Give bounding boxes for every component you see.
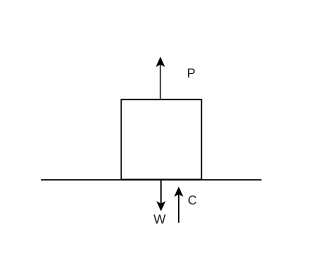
force arrow C head (175, 187, 183, 196)
force arrow W shaft (160, 180, 162, 205)
svg-text:P: P (187, 67, 195, 81)
ground line (41, 179, 262, 181)
svg-text:C: C (188, 194, 197, 208)
force arrow P head (156, 58, 164, 67)
force arrow W head (157, 202, 165, 211)
box (block on ground) (121, 100, 201, 180)
force arrow C shaft (178, 194, 180, 223)
svg-text:W: W (154, 211, 167, 226)
force arrow P shaft (159, 65, 161, 100)
